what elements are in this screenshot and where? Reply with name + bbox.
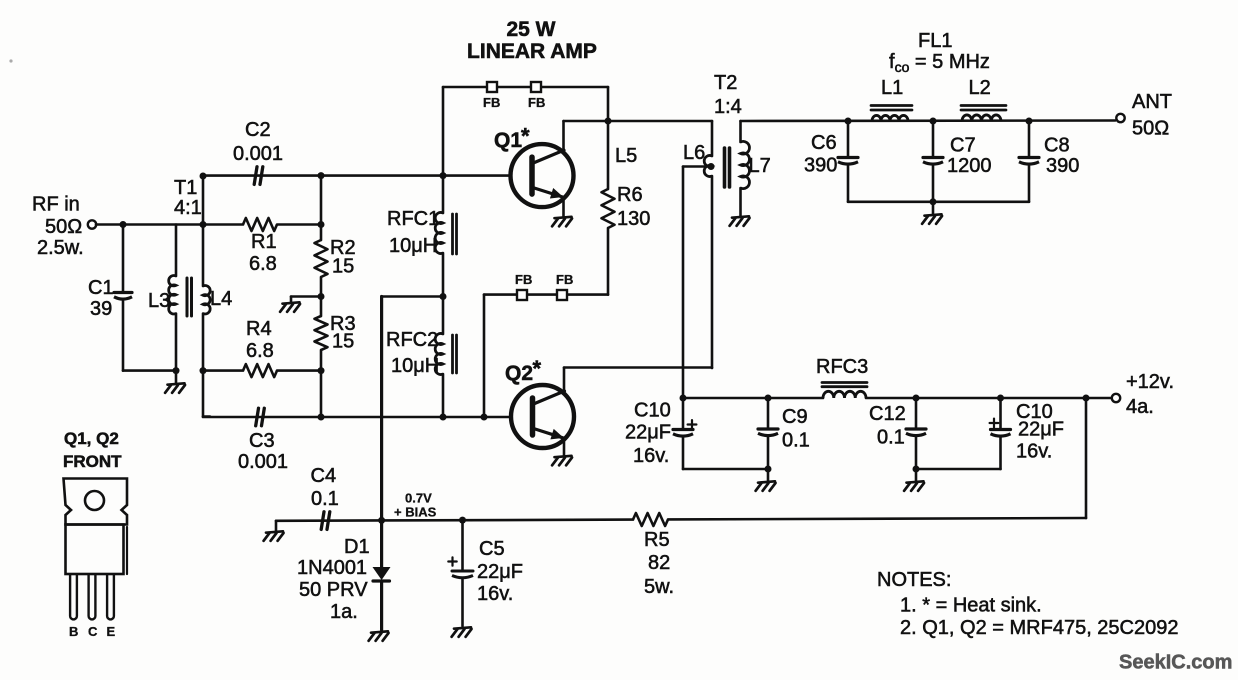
package pin B xyxy=(70,574,77,619)
package tab xyxy=(64,479,128,525)
package hole xyxy=(85,491,104,510)
svg-text:*: * xyxy=(533,356,542,381)
ground FL1 xyxy=(925,214,942,215)
inductor L6 winding xyxy=(704,156,712,177)
svg-text:390: 390 xyxy=(804,155,837,177)
capacitor C3 xyxy=(256,408,259,426)
node base2-FB junction xyxy=(481,414,488,421)
node base2-RFC2 junction xyxy=(440,414,447,421)
scan speck xyxy=(9,59,12,62)
svg-text:L5: L5 xyxy=(615,145,637,167)
transistor Q1 xyxy=(511,144,574,207)
node input-T1sec junction xyxy=(200,221,207,228)
svg-text:10μH: 10μH xyxy=(391,355,439,377)
wire C12 vertical xyxy=(915,398,918,427)
node rail-C10b junction xyxy=(997,395,1004,402)
node bus mid-ground junction xyxy=(318,293,325,300)
L1 core bars xyxy=(871,104,912,107)
supply terminal xyxy=(1112,394,1120,402)
svg-text:L2: L2 xyxy=(969,77,991,99)
inductor RFC3 xyxy=(823,391,866,398)
svg-text:L4: L4 xyxy=(210,288,232,310)
transistor Q2 xyxy=(511,385,574,448)
ground C12 xyxy=(907,481,924,482)
svg-text:R1: R1 xyxy=(251,231,277,253)
node FL1 ground junction xyxy=(930,198,937,205)
svg-text:R5: R5 xyxy=(644,529,670,551)
capacitor C2 xyxy=(254,167,257,185)
svg-text:C3: C3 xyxy=(249,430,275,452)
wire C1 bottom to L3 bottom xyxy=(123,369,176,372)
svg-text:E: E xyxy=(107,624,116,639)
svg-text:2.5w.: 2.5w. xyxy=(37,237,84,259)
wire top bus right drop xyxy=(607,87,610,121)
svg-text:5w.: 5w. xyxy=(644,576,674,598)
svg-text:NOTES:: NOTES: xyxy=(877,569,951,591)
node FL1 out xyxy=(1026,118,1033,125)
svg-text:C1: C1 xyxy=(88,277,114,299)
svg-text:L1: L1 xyxy=(881,77,903,99)
node rail-C12 junction xyxy=(913,395,920,402)
capacitor C12 xyxy=(906,427,926,430)
wire Q1 collector xyxy=(562,121,565,150)
svg-text:50Ω: 50Ω xyxy=(1132,118,1169,140)
C10b plus xyxy=(990,422,999,424)
wire FB mid bus xyxy=(484,293,608,296)
wire T2 primary top xyxy=(711,121,714,156)
svg-text:4a.: 4a. xyxy=(1126,396,1154,418)
node L4-R4 junction xyxy=(200,367,207,374)
inductor RFC2 xyxy=(435,334,443,375)
svg-text:2. Q1, Q2 = MRF475, 25C2092: 2. Q1, Q2 = MRF475, 25C2092 xyxy=(900,617,1179,639)
ground L7 xyxy=(732,216,749,217)
wire T2 primary bottom xyxy=(711,176,714,368)
node rail-C10a junction xyxy=(680,395,687,402)
svg-text:6.8: 6.8 xyxy=(249,253,277,275)
svg-text:L7: L7 xyxy=(749,155,771,177)
svg-text:C10: C10 xyxy=(634,400,671,422)
ground Q2 emitter xyxy=(555,456,572,457)
wire bias line xyxy=(276,520,633,521)
svg-text:0.1: 0.1 xyxy=(877,427,905,449)
svg-text:6.8: 6.8 xyxy=(246,340,274,362)
svg-text:1. * = Heat sink.: 1. * = Heat sink. xyxy=(900,595,1042,617)
wire FL1 ground stem xyxy=(932,202,935,214)
wire bias left drop xyxy=(275,521,278,531)
svg-text:Q2: Q2 xyxy=(505,362,533,385)
svg-text:+12v.: +12v. xyxy=(1126,371,1174,393)
svg-text:22μF: 22μF xyxy=(1018,419,1064,441)
wire L7 top xyxy=(739,121,742,142)
svg-text:C2: C2 xyxy=(245,119,271,141)
inductor L2 xyxy=(962,115,1001,121)
capacitor C10a xyxy=(673,428,693,431)
svg-text:LINEAR AMP: LINEAR AMP xyxy=(467,40,597,63)
wire C5 vertical xyxy=(461,520,464,570)
node RFC1-bias junction xyxy=(440,293,447,300)
wire T1 secondary bottom xyxy=(202,314,205,417)
RF input terminal xyxy=(88,220,96,228)
ferrite bead FB2 xyxy=(531,82,541,92)
svg-text:RF in: RF in xyxy=(32,194,80,216)
ground bias left xyxy=(266,531,283,532)
svg-text:1a.: 1a. xyxy=(330,601,358,623)
inductor L1 xyxy=(872,115,908,121)
svg-text:C8: C8 xyxy=(1044,135,1070,157)
capacitor C6 xyxy=(838,156,858,159)
capacitor C8 xyxy=(1019,156,1039,159)
wire Q1 emitter xyxy=(562,197,565,217)
ferrite bead FB4 xyxy=(557,290,567,300)
svg-text:16v.: 16v. xyxy=(477,583,513,605)
RFC2 core bars xyxy=(451,335,454,373)
node base-RFC1 junction xyxy=(440,172,447,179)
C10a plus xyxy=(688,423,697,425)
svg-text:130: 130 xyxy=(617,208,650,230)
svg-text:RFC3: RFC3 xyxy=(816,356,868,378)
node C9 bottom junction xyxy=(765,466,772,473)
svg-text:50 PRV: 50 PRV xyxy=(299,579,368,601)
inductor L4 winding xyxy=(203,286,210,314)
svg-text:FL1: FL1 xyxy=(918,30,952,52)
svg-text:T2: T2 xyxy=(714,72,737,94)
wire L3 top xyxy=(175,225,178,277)
svg-text:1N4001: 1N4001 xyxy=(297,557,367,579)
svg-text:SeekIC.com: SeekIC.com xyxy=(1119,652,1232,674)
svg-text:*: * xyxy=(521,124,530,149)
node rail-R5 junction xyxy=(1083,395,1090,402)
svg-text:0.001: 0.001 xyxy=(238,451,288,473)
wire C9 vertical xyxy=(767,398,770,427)
inductor L3 winding xyxy=(169,276,176,314)
inductor RFC1 xyxy=(435,213,443,254)
svg-text:15: 15 xyxy=(332,331,354,353)
svg-text:50Ω: 50Ω xyxy=(45,216,82,238)
svg-text:RFC1: RFC1 xyxy=(387,208,439,230)
C5 plus xyxy=(448,560,456,562)
svg-text:C6: C6 xyxy=(811,132,837,154)
svg-text:15: 15 xyxy=(332,256,354,278)
wire FB top bus xyxy=(443,86,608,89)
svg-text:C12: C12 xyxy=(869,403,906,425)
svg-text:16v.: 16v. xyxy=(1016,441,1052,463)
package body edge line xyxy=(126,527,128,574)
node L4 top junction xyxy=(200,173,207,180)
wire L7 bottom xyxy=(739,188,742,216)
svg-text:C: C xyxy=(88,624,98,639)
wire input line y=224.5 xyxy=(96,223,243,226)
svg-text:D1: D1 xyxy=(344,536,370,558)
resistor R2 xyxy=(315,240,328,277)
node bias-C5 junction xyxy=(459,517,466,524)
ground Q1 emitter xyxy=(555,217,572,218)
svg-text:16v.: 16v. xyxy=(633,445,669,467)
node C3-bus junction xyxy=(318,414,325,421)
svg-text:FB: FB xyxy=(483,95,500,110)
RFC1 core bars xyxy=(451,214,454,254)
capacitor C10b xyxy=(991,428,1011,431)
svg-text:L6: L6 xyxy=(683,142,705,164)
node R4-bus junction xyxy=(318,367,325,374)
wire C10a to C9 bottom xyxy=(683,468,768,471)
capacitor C9 xyxy=(758,427,778,430)
node input-C1 junction xyxy=(120,221,127,228)
ferrite bead FB1 xyxy=(487,82,497,92)
wire C12 to C10b bottom xyxy=(916,468,1001,471)
transformer T2 core xyxy=(723,148,727,187)
wire supply rail xyxy=(683,397,823,400)
wire bus ground tap xyxy=(291,295,321,298)
svg-text:FB: FB xyxy=(528,95,545,110)
wire C10b vertical xyxy=(999,398,1002,428)
wire Q1 base line xyxy=(203,174,511,177)
svg-text:22μF: 22μF xyxy=(477,561,523,583)
wire bias feed elbow xyxy=(382,295,443,298)
svg-text:10μH: 10μH xyxy=(389,235,437,257)
wire Q2 collector xyxy=(563,368,566,393)
svg-text:0.7V: 0.7V xyxy=(405,491,432,506)
svg-text:22μF: 22μF xyxy=(625,422,671,444)
wire L6 tap to feed xyxy=(683,165,711,168)
node collector-L5 junction xyxy=(605,118,612,125)
package body xyxy=(66,525,124,575)
ground C5 xyxy=(454,627,471,628)
capacitor C7 xyxy=(923,156,943,159)
inductor L7 winding xyxy=(741,141,750,188)
svg-text:390: 390 xyxy=(1046,155,1079,177)
svg-text:0.001: 0.001 xyxy=(233,143,283,165)
svg-text:C9: C9 xyxy=(782,406,808,428)
capacitor C1 xyxy=(114,291,132,294)
ANT terminal xyxy=(1116,114,1124,122)
resistor R4 xyxy=(243,364,277,377)
node R1-bus junction xyxy=(318,221,325,228)
wire D1 vertical xyxy=(380,520,383,567)
resistor R1 xyxy=(243,218,277,231)
ground bus tap xyxy=(283,302,300,303)
svg-text:25 W: 25 W xyxy=(506,18,555,41)
svg-text:R4: R4 xyxy=(246,318,272,340)
RFC3 core bars xyxy=(822,381,867,384)
wire FL1 bottom rail xyxy=(848,201,1029,204)
node rail-C9 junction xyxy=(765,395,772,402)
wire R6 bottom xyxy=(607,228,610,295)
wire L5 xyxy=(607,121,610,189)
wire Q2 base line xyxy=(203,416,511,419)
svg-text:+ BIAS: + BIAS xyxy=(394,505,437,520)
wire C6 vertical xyxy=(847,121,850,156)
node bias-D1 junction xyxy=(378,517,385,524)
svg-text:C7: C7 xyxy=(950,135,976,157)
wire Q2 emitter xyxy=(563,438,566,455)
node C2-bus junction xyxy=(318,172,325,179)
transformer T1 core xyxy=(186,278,189,316)
wire C7 vertical xyxy=(932,121,935,156)
svg-text:82: 82 xyxy=(648,552,670,574)
ground L3 xyxy=(168,383,185,384)
svg-text:C4: C4 xyxy=(311,465,337,487)
svg-text:L3: L3 xyxy=(148,290,170,312)
L2 core bars xyxy=(961,104,1006,107)
node FL1 mid xyxy=(930,118,937,125)
wire left bus x=321 xyxy=(320,176,323,240)
svg-text:T1: T1 xyxy=(174,177,197,199)
capacitor C4 xyxy=(321,512,324,530)
svg-text:Q1, Q2: Q1, Q2 xyxy=(64,429,119,448)
wire R4 line xyxy=(203,369,243,372)
svg-text:0.1: 0.1 xyxy=(311,488,339,510)
svg-text:B: B xyxy=(69,624,78,639)
svg-text:RFC2: RFC2 xyxy=(386,329,438,351)
wire C10a vertical xyxy=(682,398,685,428)
wire L3 bottom xyxy=(175,314,178,384)
package pin C xyxy=(89,574,96,619)
ground C9 xyxy=(758,481,775,482)
resistor R5 xyxy=(633,513,668,526)
ferrite bead FB3 xyxy=(517,290,527,300)
svg-text:0.1: 0.1 xyxy=(782,430,810,452)
svg-text:Q1: Q1 xyxy=(494,129,522,152)
wire T1 secondary top xyxy=(202,176,205,286)
wire C1 vertical xyxy=(122,225,125,293)
wire C8 vertical xyxy=(1028,121,1031,156)
node FL1 in xyxy=(845,118,852,125)
diode D1 xyxy=(373,567,391,580)
wire RFC bus x=443 xyxy=(442,87,445,213)
svg-text:4:1: 4:1 xyxy=(174,197,202,219)
node C12 bottom junction xyxy=(913,466,920,473)
svg-text:1200: 1200 xyxy=(947,155,992,177)
capacitor C5 xyxy=(452,570,473,573)
node L3-C1 junction xyxy=(173,367,180,374)
svg-text:FB: FB xyxy=(515,272,532,287)
package pin E xyxy=(107,574,114,619)
svg-text:1:4: 1:4 xyxy=(714,96,742,118)
svg-text:ANT: ANT xyxy=(1132,91,1172,113)
svg-text:FRONT: FRONT xyxy=(63,452,122,471)
resistor R3 xyxy=(315,316,328,350)
svg-text:R6: R6 xyxy=(617,184,643,206)
resistor R6 xyxy=(602,189,615,228)
ground D1 xyxy=(371,631,388,632)
svg-text:C5: C5 xyxy=(479,538,505,560)
svg-text:FB: FB xyxy=(556,272,573,287)
node L6 tap xyxy=(708,163,715,170)
svg-text:39: 39 xyxy=(90,298,112,320)
